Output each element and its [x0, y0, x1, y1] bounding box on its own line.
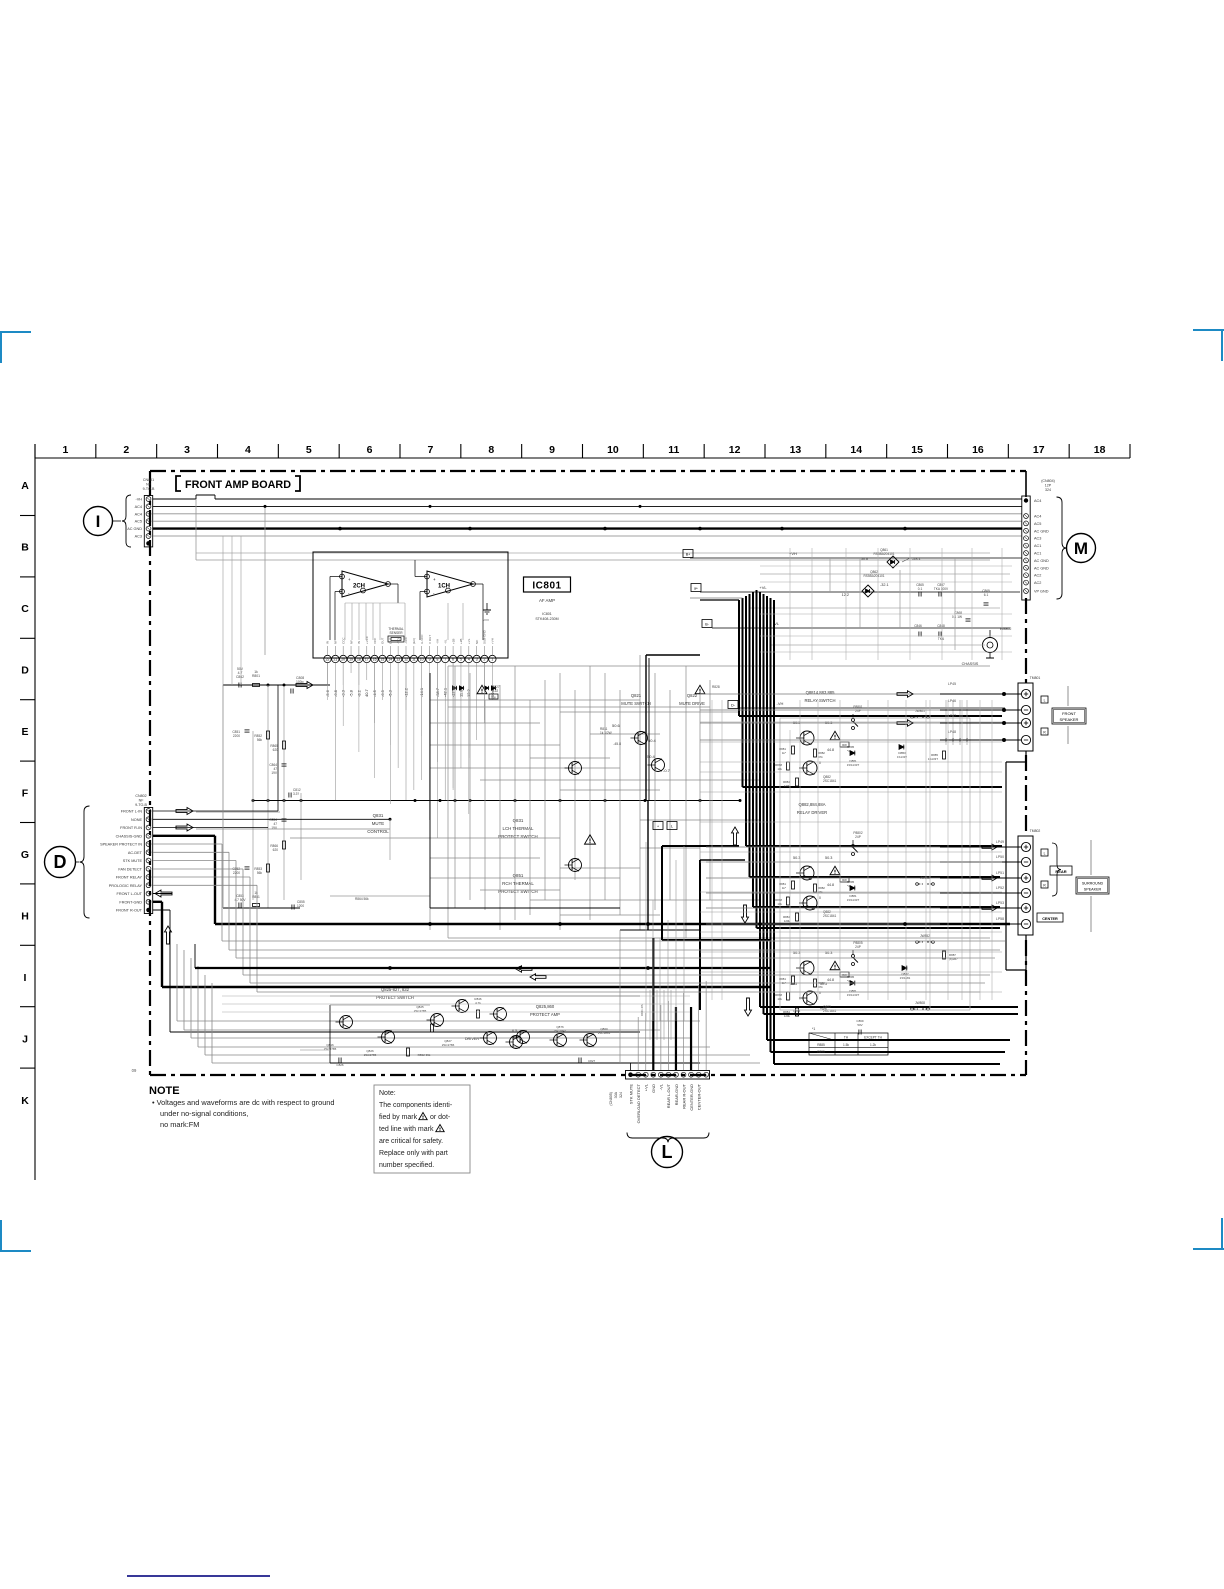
svg-text:4: 4 — [468, 658, 470, 662]
svg-text:19V: 19V — [271, 771, 278, 775]
svg-text:-32.1: -32.1 — [880, 583, 889, 587]
svg-text:NF: NF — [349, 640, 353, 644]
svg-text:IC801: IC801 — [532, 581, 561, 592]
svg-text:IC801: IC801 — [542, 612, 552, 616]
svg-text:are critical for safety.: are critical for safety. — [379, 1138, 443, 1145]
svg-text:11: 11 — [668, 444, 679, 456]
svg-text:no mark:FM: no mark:FM — [160, 1120, 199, 1129]
svg-text:REAR R-OUT: REAR R-OUT — [681, 1083, 686, 1108]
svg-text:LP46: LP46 — [948, 699, 956, 703]
svg-text:MUTE SWITCH: MUTE SWITCH — [621, 701, 651, 706]
svg-text:-VL: -VL — [443, 639, 447, 644]
svg-text:50.3: 50.3 — [793, 856, 800, 860]
svg-text:NF: NF — [334, 640, 338, 644]
svg-text:OUT: OUT — [389, 638, 393, 645]
svg-text:FRONT L-OUT: FRONT L-OUT — [117, 892, 143, 896]
svg-text:CHASSIS-GND: CHASSIS-GND — [116, 834, 143, 838]
svg-text:AC4: AC4 — [1034, 499, 1041, 503]
svg-text:Q882,884,88A: Q882,884,88A — [798, 802, 825, 807]
svg-text:under no-signal conditions,: under no-signal conditions, — [160, 1109, 248, 1118]
svg-text:AC3: AC3 — [1034, 537, 1041, 541]
svg-text:11: 11 — [412, 658, 416, 662]
svg-text:47k: 47k — [818, 755, 823, 759]
svg-text:LP47: LP47 — [948, 714, 956, 718]
svg-text:L: L — [662, 1142, 673, 1162]
svg-text:-VH: -VH — [436, 639, 440, 644]
svg-text:C: C — [21, 603, 29, 615]
svg-text:6.5: 6.5 — [512, 1029, 517, 1033]
svg-text:2SC2786: 2SC2786 — [442, 1043, 455, 1047]
svg-text:5: 5 — [306, 444, 312, 456]
svg-text:50.3: 50.3 — [825, 951, 832, 955]
svg-text:0.1: 0.1 — [918, 587, 923, 591]
svg-text:AC GND: AC GND — [1034, 559, 1049, 563]
svg-text:50.4: 50.4 — [647, 754, 656, 759]
svg-text:AC2: AC2 — [1034, 574, 1041, 578]
svg-text:Replace only with part: Replace only with part — [379, 1150, 448, 1157]
svg-text:50.8: 50.8 — [861, 557, 868, 561]
svg-text:• Voltages and waveforms are d: • Voltages and waveforms are dc with res… — [152, 1098, 335, 1107]
svg-text:AC5: AC5 — [1034, 522, 1041, 526]
svg-text:RELAY DRIVER: RELAY DRIVER — [797, 810, 827, 815]
svg-text:VCC: VCC — [373, 637, 377, 644]
svg-text:0: 0 — [819, 761, 821, 765]
svg-text:M: M — [1074, 539, 1088, 558]
svg-text:R841 47k: R841 47k — [640, 1003, 644, 1016]
svg-text:13: 13 — [790, 444, 802, 456]
svg-text:0.22: 0.22 — [492, 689, 498, 693]
svg-text:LP45: LP45 — [948, 682, 956, 686]
svg-text:VVV: VVV — [483, 618, 489, 622]
svg-text:1SS133T: 1SS133T — [847, 763, 860, 767]
svg-text:6: 6 — [452, 658, 454, 662]
svg-text:6.1: 6.1 — [984, 593, 989, 597]
svg-text:H: H — [21, 911, 29, 923]
svg-text:56k: 56k — [257, 738, 263, 742]
svg-text:-VL: -VL — [659, 1083, 664, 1090]
svg-text:12: 12 — [404, 658, 408, 662]
svg-text:OVERLOAD DETECT: OVERLOAD DETECT — [636, 1083, 641, 1123]
svg-text:1k: 1k — [254, 891, 258, 895]
svg-text:1SS181: 1SS181 — [900, 976, 911, 980]
svg-text:LCH THERMAL: LCH THERMAL — [503, 826, 534, 831]
svg-text:REAR L-OUT: REAR L-OUT — [666, 1083, 671, 1108]
svg-text:CCC: CCC — [341, 637, 345, 644]
svg-text:L: L — [671, 825, 673, 829]
svg-text:GND: GND — [651, 1084, 656, 1093]
svg-text:F: F — [22, 788, 29, 800]
svg-text:50V: 50V — [857, 1023, 862, 1027]
svg-text:324: 324 — [619, 1092, 623, 1098]
svg-text:2CH: 2CH — [353, 584, 365, 590]
svg-text:+2B: +2B — [459, 639, 463, 644]
svg-text:(EX): (EX) — [412, 638, 416, 644]
svg-text:L: L — [1044, 699, 1046, 703]
svg-text:-VCC: -VCC — [404, 636, 408, 644]
svg-text:2: 2 — [123, 444, 129, 456]
svg-text:FRONT: FRONT — [1062, 711, 1076, 716]
svg-text:24P: 24P — [855, 945, 861, 949]
svg-text:MUTE: MUTE — [372, 821, 385, 826]
svg-text:*1: *1 — [812, 1027, 815, 1031]
svg-text:-45.8: -45.8 — [613, 742, 621, 746]
svg-text:1k: 1k — [254, 670, 258, 674]
svg-text:OUT: OUT — [381, 638, 385, 645]
svg-text:R828: R828 — [712, 685, 720, 689]
svg-text:1k 1/2W: 1k 1/2W — [600, 731, 612, 735]
svg-text:20: 20 — [341, 658, 345, 662]
svg-text:fied by mark: fied by mark — [379, 1114, 418, 1121]
svg-text:16: 16 — [373, 658, 377, 662]
svg-text:17: 17 — [1033, 444, 1045, 456]
svg-text:NF: NF — [146, 483, 152, 487]
svg-text:13: 13 — [396, 658, 400, 662]
svg-text:8: 8 — [488, 444, 494, 456]
svg-text:2200: 2200 — [233, 871, 240, 875]
svg-text:1.2k: 1.2k — [870, 1043, 876, 1047]
svg-text:PROTECT AMP: PROTECT AMP — [530, 1012, 560, 1017]
svg-text:VP GND: VP GND — [1034, 590, 1049, 594]
svg-text:E: E — [21, 726, 28, 738]
svg-text:15: 15 — [911, 444, 923, 456]
svg-text:AC GND: AC GND — [127, 527, 142, 531]
svg-text:FRONT AMP BOARD: FRONT AMP BOARD — [185, 479, 291, 491]
svg-text:C826: C826 — [336, 1063, 344, 1067]
svg-text:C846: C846 — [914, 624, 922, 628]
svg-text:CN801: CN801 — [143, 478, 154, 482]
svg-text:09: 09 — [132, 1068, 137, 1073]
svg-text:TH: TH — [844, 1036, 849, 1040]
svg-text:AC-DET: AC-DET — [128, 851, 143, 855]
svg-text:LP49: LP49 — [996, 840, 1004, 844]
svg-text:12.2: 12.2 — [842, 593, 849, 597]
svg-text:44.8: 44.8 — [827, 748, 834, 752]
svg-text:D: D — [21, 665, 29, 677]
svg-text:+VCC: +VCC — [365, 635, 369, 644]
svg-text:120k: 120k — [784, 1014, 791, 1018]
svg-text:Q884: Q884 — [793, 1009, 801, 1013]
svg-text:K: K — [21, 1095, 29, 1107]
svg-text:V OUT: V OUT — [428, 635, 432, 644]
svg-text:DRIVER: DRIVER — [465, 1037, 480, 1041]
svg-text:TKA: TKA — [938, 637, 945, 641]
svg-text:AC2: AC2 — [1034, 581, 1041, 585]
svg-text:Q851: Q851 — [513, 873, 524, 878]
svg-text:RELAY SWITCH: RELAY SWITCH — [804, 698, 835, 703]
svg-text:Note:: Note: — [379, 1090, 396, 1097]
svg-text:Q825-827, 832: Q825-827, 832 — [381, 987, 410, 992]
svg-text:+VL: +VL — [644, 1083, 649, 1091]
svg-text:12P: 12P — [1045, 484, 1052, 488]
svg-text:SPEAKER PROTECT IN: SPEAKER PROTECT IN — [100, 843, 142, 847]
svg-text:+VL: +VL — [467, 638, 471, 644]
svg-text:19V: 19V — [271, 826, 278, 830]
svg-text:2SC1841: 2SC1841 — [598, 1031, 611, 1035]
svg-text:LP51: LP51 — [996, 871, 1004, 875]
svg-text:3: 3 — [476, 658, 478, 662]
svg-text:B+: B+ — [686, 553, 691, 557]
svg-text:SENSER: SENSER — [389, 631, 403, 635]
svg-text:SURROUND: SURROUND — [1082, 882, 1104, 886]
svg-text:RS5BA204101: RS5BA204101 — [863, 574, 884, 578]
svg-text:C848: C848 — [937, 624, 945, 628]
svg-text:2SC1841: 2SC1841 — [823, 914, 837, 918]
svg-text:FAN DETECT: FAN DETECT — [118, 867, 142, 871]
svg-text:R832 39k: R832 39k — [418, 1053, 431, 1057]
svg-text:CONTROL: CONTROL — [367, 829, 389, 834]
svg-text:19: 19 — [349, 658, 353, 662]
svg-text:B: B — [21, 542, 29, 554]
svg-text:324: 324 — [1045, 488, 1051, 492]
svg-text:1SS133T: 1SS133T — [847, 898, 860, 902]
svg-text:FRONT-GND: FRONT-GND — [119, 900, 142, 904]
svg-text:620: 620 — [273, 848, 279, 852]
svg-text:C827: C827 — [588, 1059, 596, 1063]
svg-text:TM802: TM802 — [1030, 829, 1041, 833]
svg-text:12: 12 — [729, 444, 741, 456]
svg-text:-VCC: -VCC — [396, 636, 400, 644]
svg-text:AC4: AC4 — [1034, 515, 1041, 519]
svg-text:3: 3 — [184, 444, 190, 456]
svg-text:AC4: AC4 — [135, 505, 142, 509]
svg-text:PROLOGIC RELAY: PROLOGIC RELAY — [109, 884, 143, 888]
svg-text:2SC2785: 2SC2785 — [414, 1009, 427, 1013]
svg-text:9: 9 — [549, 444, 555, 456]
svg-text:Q825,860: Q825,860 — [536, 1004, 555, 1009]
svg-text:FRONT R-IN: FRONT R-IN — [120, 826, 142, 830]
svg-text:24P: 24P — [855, 835, 861, 839]
svg-text:TKA 100V: TKA 100V — [934, 587, 949, 591]
svg-text:1.5k: 1.5k — [843, 1043, 849, 1047]
svg-text:(CN804): (CN804) — [1041, 479, 1055, 483]
svg-text:REAR-GND: REAR-GND — [674, 1084, 679, 1105]
svg-text:0: 0 — [819, 896, 821, 900]
svg-text:AC4: AC4 — [135, 512, 142, 516]
svg-text:4.7k: 4.7k — [475, 1001, 481, 1005]
svg-text:ted line with mark: ted line with mark — [379, 1126, 434, 1133]
svg-text:L: L — [1044, 852, 1046, 856]
svg-text:2SC1841: 2SC1841 — [823, 779, 837, 783]
svg-text:AF AMP: AF AMP — [539, 598, 555, 603]
svg-text:50.4: 50.4 — [648, 738, 657, 743]
svg-text:R885: R885 — [817, 1043, 825, 1047]
svg-text:I: I — [96, 512, 101, 531]
svg-text:AC5: AC5 — [135, 520, 142, 524]
svg-text:LP53: LP53 — [996, 901, 1004, 905]
svg-text:AC1: AC1 — [1034, 552, 1041, 556]
svg-text:AC1: AC1 — [1034, 544, 1041, 548]
svg-text:22: 22 — [326, 658, 330, 662]
svg-text:NONE: NONE — [131, 818, 142, 822]
svg-text:4.7: 4.7 — [238, 671, 243, 675]
svg-text:Q821: Q821 — [631, 693, 642, 698]
svg-text:9: 9 — [429, 658, 431, 662]
svg-text:U-VCC: U-VCC — [420, 634, 424, 644]
svg-text:LP58: LP58 — [996, 917, 1004, 921]
svg-text:50V: 50V — [237, 667, 244, 671]
svg-text:2SC2785: 2SC2785 — [364, 1053, 377, 1057]
svg-text:D: D — [54, 852, 67, 872]
svg-text:A: A — [21, 480, 29, 492]
svg-text:STK MUTE: STK MUTE — [628, 1084, 633, 1105]
svg-text:EXCEPT TH: EXCEPT TH — [864, 1036, 882, 1040]
svg-text:R895: R895 — [817, 1050, 825, 1054]
svg-text:50.6: 50.6 — [612, 723, 621, 728]
svg-text:-0.7: -0.7 — [663, 768, 671, 773]
svg-text:14: 14 — [388, 658, 392, 662]
svg-text:2SC1841: 2SC1841 — [554, 1029, 567, 1033]
svg-text:-VH: -VH — [135, 498, 142, 502]
svg-text:1200: 1200 — [297, 904, 304, 908]
svg-text:1SS133T: 1SS133T — [847, 993, 860, 997]
svg-text:2: 2 — [484, 658, 486, 662]
svg-text:2200: 2200 — [233, 734, 240, 738]
svg-text:+VL: +VL — [759, 585, 767, 590]
svg-text:50.3: 50.3 — [793, 951, 800, 955]
svg-text:1: 1 — [491, 658, 493, 662]
svg-text:RCH THERMAL: RCH THERMAL — [502, 881, 534, 886]
svg-text:7: 7 — [427, 444, 433, 456]
svg-text:18: 18 — [1094, 444, 1106, 456]
svg-text:1: 1 — [62, 444, 68, 456]
svg-text:+: + — [433, 577, 436, 582]
svg-text:+4.8: +4.8 — [820, 1007, 827, 1011]
svg-text:NOTE: NOTE — [149, 1085, 180, 1097]
svg-text:IN: IN — [326, 641, 330, 644]
svg-text:EM802: EM802 — [1000, 627, 1011, 631]
svg-text:(CN805): (CN805) — [609, 1092, 613, 1106]
svg-text:1CH: 1CH — [438, 584, 450, 590]
svg-text:+: + — [348, 577, 351, 582]
svg-text:or dot-: or dot- — [430, 1114, 451, 1121]
svg-text:LP50: LP50 — [996, 855, 1004, 859]
svg-text:+2B: +2B — [451, 639, 455, 644]
svg-text:J: J — [22, 1034, 28, 1046]
svg-text:AC GND: AC GND — [1034, 529, 1049, 533]
svg-text:LP48: LP48 — [948, 730, 956, 734]
svg-text:CENTER-GND: CENTER-GND — [689, 1084, 694, 1111]
svg-text:STK408-230M: STK408-230M — [535, 617, 558, 621]
svg-text:Q831: Q831 — [513, 818, 524, 823]
svg-text:18: 18 — [357, 658, 361, 662]
svg-text:1S133T: 1S133T — [928, 757, 938, 761]
svg-text:Q831: Q831 — [373, 813, 384, 818]
svg-text:44.8: 44.8 — [827, 978, 834, 982]
svg-text:AC3: AC3 — [135, 535, 142, 539]
svg-text:LP52: LP52 — [996, 886, 1004, 890]
svg-text:CN802: CN802 — [135, 794, 146, 798]
svg-text:RS5BA204101: RS5BA204101 — [873, 552, 894, 556]
svg-text:JW852: JW852 — [920, 934, 930, 938]
svg-text:+VH: +VH — [491, 638, 495, 644]
svg-text:0.1 1W: 0.1 1W — [952, 615, 962, 619]
svg-text:16: 16 — [972, 444, 984, 456]
svg-text:STK MUTE: STK MUTE — [123, 859, 143, 863]
svg-text:NF: NF — [139, 799, 145, 803]
svg-text:10: 10 — [607, 444, 619, 456]
svg-text:SUB-GND: SUB-GND — [483, 629, 487, 644]
svg-text:40.7: 40.7 — [364, 688, 369, 697]
svg-text:SPEAKER: SPEAKER — [1060, 717, 1079, 722]
svg-text:17: 17 — [365, 658, 369, 662]
svg-text:FRONT R-OUT: FRONT R-OUT — [116, 909, 143, 913]
svg-text:TM801: TM801 — [1030, 676, 1041, 680]
svg-text:a+: a+ — [694, 587, 698, 591]
svg-text:CENTER: CENTER — [1042, 917, 1058, 921]
svg-text:CENTER-OUT: CENTER-OUT — [696, 1083, 701, 1110]
svg-text:10: 10 — [420, 658, 424, 662]
svg-text:120k: 120k — [784, 919, 791, 923]
svg-text:The components identi-: The components identi- — [379, 1102, 453, 1109]
svg-text:21: 21 — [333, 658, 337, 662]
svg-text:SPEAKER: SPEAKER — [1084, 888, 1102, 892]
svg-text:15: 15 — [381, 658, 385, 662]
svg-text:9-TO-B: 9-TO-B — [143, 487, 155, 491]
svg-text:number specified.: number specified. — [379, 1162, 434, 1169]
svg-text:120k: 120k — [784, 784, 791, 788]
svg-text:9-TO-B: 9-TO-B — [135, 803, 147, 807]
svg-text:AC GND: AC GND — [1034, 566, 1049, 570]
svg-text:4: 4 — [245, 444, 251, 456]
svg-text:FRONT L-IN: FRONT L-IN — [121, 810, 142, 814]
svg-text:MUTE DRIVE: MUTE DRIVE — [679, 701, 705, 706]
svg-text:30A: 30A — [614, 1091, 618, 1098]
svg-text:620: 620 — [273, 748, 279, 752]
svg-text:R864 56k: R864 56k — [355, 897, 369, 901]
svg-text:CHASSIS: CHASSIS — [962, 662, 979, 666]
svg-text:-5.8: -5.8 — [348, 689, 353, 697]
svg-text:IN: IN — [357, 641, 361, 644]
svg-text:7: 7 — [444, 658, 446, 662]
svg-text:-53.1: -53.1 — [912, 557, 921, 561]
svg-text:R801: R801 — [252, 674, 260, 678]
svg-text:R851: R851 — [252, 895, 260, 899]
svg-text:5: 5 — [460, 658, 462, 662]
svg-text:56k: 56k — [257, 871, 263, 875]
svg-text:JW808: JW808 — [915, 1001, 925, 1005]
svg-text:+: + — [657, 825, 659, 829]
svg-text:-VH: -VH — [777, 701, 784, 706]
svg-text:I: I — [24, 972, 27, 984]
svg-text:C862: C862 — [236, 675, 244, 679]
svg-text:14: 14 — [850, 444, 862, 456]
svg-text:6: 6 — [367, 444, 373, 456]
svg-text:G: G — [21, 849, 29, 861]
svg-text:50.3: 50.3 — [825, 856, 832, 860]
svg-text:FRONT RELAY: FRONT RELAY — [116, 876, 143, 880]
svg-text:FW: FW — [491, 695, 496, 699]
svg-text:3.3?: 3.3? — [293, 792, 299, 796]
svg-text:44.8: 44.8 — [827, 883, 834, 887]
svg-text:8: 8 — [436, 658, 438, 662]
